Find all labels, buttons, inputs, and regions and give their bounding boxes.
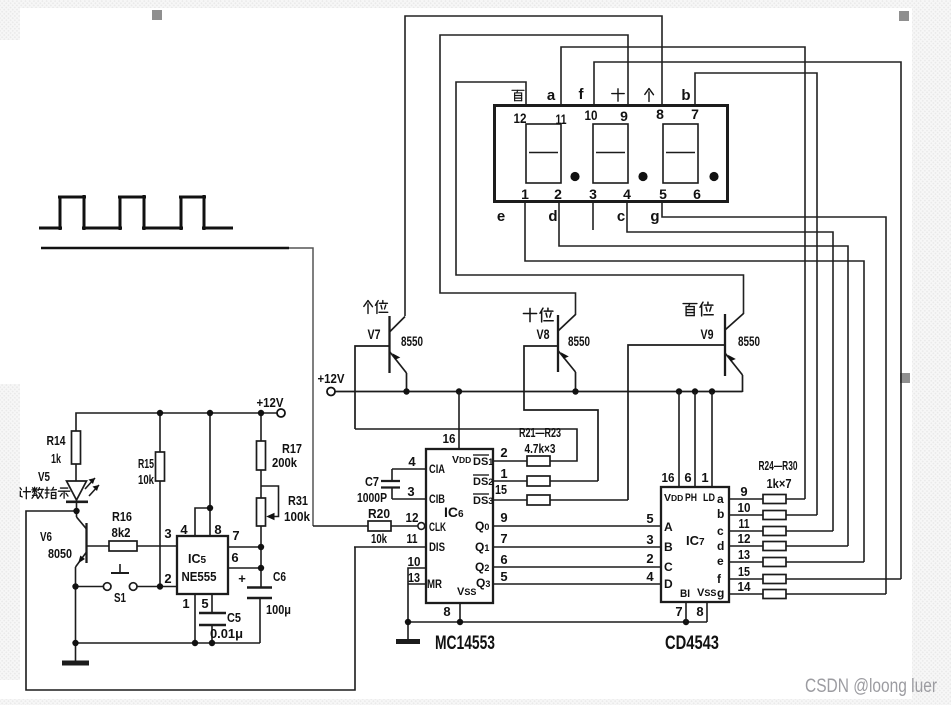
svg-text:Q1: Q1 <box>475 540 489 554</box>
svg-text:IC5: IC5 <box>188 552 207 566</box>
svg-text:+: + <box>238 571 246 586</box>
svg-text:7: 7 <box>691 106 699 122</box>
svg-text:4: 4 <box>180 522 188 537</box>
svg-text:3: 3 <box>407 484 414 499</box>
wire segment d: display pin2 to R27 <box>559 203 848 546</box>
svg-text:R21—R23: R21—R23 <box>519 426 561 440</box>
svg-text:NE555: NE555 <box>182 570 217 584</box>
node dots IC ground rail <box>405 619 689 625</box>
svg-text:4.7k×3: 4.7k×3 <box>525 442 556 456</box>
resistor R15 <box>156 413 165 587</box>
svg-text:C7: C7 <box>365 475 379 489</box>
label 十位 (V8) <box>523 308 536 321</box>
svg-text:c: c <box>717 524 724 538</box>
wire NE555 pin6 <box>228 567 261 569</box>
svg-text:b: b <box>717 507 724 521</box>
svg-text:B: B <box>664 540 673 554</box>
wire clock elbow to R20 <box>289 248 313 526</box>
svg-text:V6: V6 <box>40 530 52 544</box>
svg-text:10k: 10k <box>371 532 387 546</box>
svg-text:R20: R20 <box>368 507 390 521</box>
svg-text:Q0: Q0 <box>475 519 489 533</box>
svg-text:10k: 10k <box>138 473 154 487</box>
svg-text:8: 8 <box>696 604 703 619</box>
svg-text:9: 9 <box>500 510 507 525</box>
wire segment g: display pin5 to R30 <box>662 203 886 594</box>
LED V5 <box>66 478 99 502</box>
display module box <box>495 106 728 202</box>
svg-text:CIB: CIB <box>429 492 445 506</box>
label 个 (display units) <box>645 89 654 102</box>
wire IC6 pin11 DIS <box>354 546 426 548</box>
wire NE555 pin1 to ground <box>194 594 196 643</box>
CD4543 top pin labels <box>662 470 709 619</box>
wire long clock line <box>41 247 289 250</box>
svg-text:12: 12 <box>514 110 527 126</box>
wire CD4543 BI pin7 to ground <box>685 602 687 622</box>
svg-text:+12V: +12V <box>318 371 345 386</box>
capacitor C6 <box>247 588 272 644</box>
svg-text:1k: 1k <box>51 452 61 466</box>
wire segment b: display pin7 to R25 <box>695 73 817 515</box>
svg-text:6: 6 <box>500 552 507 567</box>
wire V7 base <box>355 346 390 429</box>
svg-text:8550: 8550 <box>401 334 423 349</box>
svg-text:7: 7 <box>232 528 239 543</box>
switch S1 <box>76 564 178 590</box>
op IC6 MC14553 box <box>426 449 493 603</box>
svg-text:8: 8 <box>443 604 450 619</box>
svg-text:4: 4 <box>623 186 631 202</box>
decimal point dot 1 <box>570 172 579 181</box>
capacitor C7 <box>381 469 400 499</box>
label 百 (display hundreds) <box>512 90 524 100</box>
capacitor C5 <box>199 594 226 643</box>
node dots on +12V rail <box>403 388 715 394</box>
selection handle top-left <box>152 10 162 20</box>
svg-text:CD4543: CD4543 <box>665 633 719 654</box>
wire IC6 pin10 and pin13 MR stubs <box>408 568 426 622</box>
svg-text:3: 3 <box>589 186 597 202</box>
svg-text:6: 6 <box>693 186 701 202</box>
svg-text:e: e <box>717 554 724 568</box>
op IC7 CD4543 box <box>661 487 729 602</box>
svg-text:D: D <box>664 577 673 591</box>
IC6 CLK inverting bubble <box>418 523 425 530</box>
label 个位 (V7) <box>364 301 373 314</box>
svg-text:LD: LD <box>703 492 715 504</box>
svg-text:12: 12 <box>406 510 419 525</box>
svg-text:15: 15 <box>495 482 507 497</box>
svg-text:9: 9 <box>740 484 747 499</box>
wire segment a: display pin11 to R24 <box>561 47 805 499</box>
svg-text:DS1: DS1 <box>473 456 493 468</box>
decimal point dot 3 <box>709 172 718 181</box>
display pin numbers top row <box>514 106 700 127</box>
wire R21 to V7 base <box>355 429 577 461</box>
svg-text:11: 11 <box>407 531 418 546</box>
svg-text:VDD: VDD <box>452 454 471 466</box>
CD4543 internal labels <box>664 492 724 600</box>
display pin numbers bottom row <box>521 186 701 202</box>
svg-text:2: 2 <box>164 571 171 586</box>
svg-text:8550: 8550 <box>738 334 760 349</box>
CD4543 right pin labels <box>738 484 752 594</box>
svg-text:C: C <box>664 560 673 574</box>
resistor R22 <box>527 476 550 486</box>
svg-text:16: 16 <box>662 470 675 485</box>
wire IC6 DS2 pin1 to R22 <box>493 480 527 482</box>
wire Q3 to CD4543 D <box>493 583 661 585</box>
+12V terminal circle (NE555) <box>277 409 285 417</box>
svg-text:Q2: Q2 <box>475 560 489 574</box>
svg-text:13: 13 <box>408 570 420 585</box>
svg-text:15: 15 <box>738 564 750 579</box>
potentiometer R31 <box>257 486 279 587</box>
svg-text:DS3: DS3 <box>473 495 493 507</box>
wire R22 to V8 base riser <box>550 480 598 482</box>
digit cell 3 <box>663 124 698 183</box>
wire IC6 pin3 CIB <box>392 498 426 500</box>
svg-text:1k×7: 1k×7 <box>767 477 792 491</box>
svg-text:V7: V7 <box>368 327 381 342</box>
clock waveform <box>39 195 233 230</box>
svg-text:R31: R31 <box>288 494 308 508</box>
svg-text:a: a <box>717 492 724 506</box>
IC6 internal labels <box>427 454 493 598</box>
svg-text:5: 5 <box>646 511 653 526</box>
svg-text:PH: PH <box>685 492 697 504</box>
svg-text:VSS: VSS <box>697 587 716 599</box>
wire NE555 pin4/pin8 to +12V <box>195 508 210 536</box>
digit cell 2 <box>593 124 628 183</box>
wire f out + resistor R29 <box>729 578 763 580</box>
svg-text:d: d <box>717 539 724 553</box>
resistor R23 <box>527 495 550 505</box>
svg-text:200k: 200k <box>272 456 297 470</box>
svg-text:8550: 8550 <box>568 334 590 349</box>
wire NE555 pin7 <box>228 546 261 548</box>
svg-text:8: 8 <box>214 522 221 537</box>
resistor R14 <box>72 431 81 464</box>
svg-text:MR: MR <box>427 577 442 591</box>
transistor V9 8550 <box>725 314 744 393</box>
wire display pin3 stub <box>592 203 594 230</box>
wire e out + resistor R28 <box>729 561 763 563</box>
svg-text:12: 12 <box>738 531 751 546</box>
display segment labels bottom (e d c g) <box>497 208 660 225</box>
wire V9 base to R23 <box>628 345 725 500</box>
svg-text:A: A <box>664 520 673 534</box>
svg-text:BI: BI <box>680 588 690 600</box>
decimal point dot 2 <box>638 172 647 181</box>
svg-text:c: c <box>617 208 625 225</box>
label 计数指示 (V5) <box>20 487 30 498</box>
wire ground rail (NE555) <box>76 642 261 644</box>
digit cell 1 <box>526 124 561 183</box>
svg-text:C6: C6 <box>273 570 286 584</box>
svg-text:Q3: Q3 <box>476 576 490 590</box>
svg-text:9: 9 <box>620 108 628 124</box>
wire CD4543 pin1 riser <box>711 392 713 488</box>
svg-text:R14: R14 <box>47 434 66 448</box>
svg-text:2: 2 <box>554 186 562 202</box>
wire R14 to LED <box>75 464 77 481</box>
+12V terminal circle <box>327 388 335 396</box>
svg-text:100μ: 100μ <box>266 603 291 617</box>
svg-text:16: 16 <box>443 431 456 446</box>
wire R16 to NE555 pin3 <box>137 545 177 547</box>
wire Q1 to CD4543 B <box>493 546 661 548</box>
svg-text:V8: V8 <box>537 327 550 342</box>
svg-text:1000P: 1000P <box>357 491 387 505</box>
svg-text:VSS: VSS <box>457 586 476 598</box>
CD4543 left pin labels <box>646 511 654 584</box>
resistor R16 <box>109 541 137 551</box>
svg-text:8050: 8050 <box>48 547 72 561</box>
transistor V7 8550 <box>390 316 407 392</box>
wire V9 collector to display pin12 (hundreds digit) <box>456 82 744 314</box>
svg-text:5: 5 <box>659 186 667 202</box>
svg-text:DIS: DIS <box>429 540 445 554</box>
svg-text:b: b <box>681 87 690 104</box>
label 百位 (V9) <box>683 304 697 316</box>
wire V8 base to R22 <box>524 346 598 481</box>
svg-text:5: 5 <box>500 569 507 584</box>
svg-text:8: 8 <box>656 106 664 122</box>
svg-text:VDD: VDD <box>664 492 683 504</box>
svg-text:R17: R17 <box>282 442 302 456</box>
svg-text:2: 2 <box>500 445 507 460</box>
svg-text:7: 7 <box>500 531 507 546</box>
svg-text:10: 10 <box>585 107 598 123</box>
wire segment e: display pin1 to R28 <box>525 203 864 562</box>
svg-text:e: e <box>497 208 505 225</box>
svg-text:CLK: CLK <box>429 520 446 534</box>
svg-text:10: 10 <box>408 554 421 569</box>
wire node to DIS big loop <box>26 511 355 690</box>
svg-text:10: 10 <box>738 500 751 515</box>
ground symbol (ICs) <box>396 622 420 642</box>
wire IC6 pin4 CIA <box>392 468 426 470</box>
op IC5 NE555 box <box>177 536 228 594</box>
wire IC6 DS1 pin2 to R21 <box>493 460 527 462</box>
IC6 DS overlines <box>473 455 489 494</box>
wire d out + resistor R27 <box>729 545 763 547</box>
wire segment f: display pin10 to R29 <box>594 62 901 579</box>
svg-text:6: 6 <box>231 550 238 565</box>
display segment labels top (a f b) <box>547 86 691 104</box>
svg-text:R24—R30: R24—R30 <box>759 459 798 473</box>
wire V7 collector to display pin8 (units digit) <box>405 16 662 316</box>
IC6 pin number labels <box>406 431 508 619</box>
svg-text:3: 3 <box>164 526 171 541</box>
svg-text:3: 3 <box>646 532 653 547</box>
svg-text:R15: R15 <box>138 457 154 471</box>
svg-text:CSDN @loong luer: CSDN @loong luer <box>805 676 938 697</box>
svg-text:S1: S1 <box>114 591 126 605</box>
wire b out + resistor R25 <box>729 514 763 516</box>
svg-text:1: 1 <box>701 470 708 485</box>
wire Q2 to CD4543 C <box>493 566 661 568</box>
svg-text:d: d <box>548 208 557 225</box>
wire IC6 VDD pin16 riser <box>458 392 460 450</box>
svg-text:0.01μ: 0.01μ <box>210 627 243 641</box>
wire R23 to V9 base riser <box>550 499 628 501</box>
wire CD4543 VSS pin8 to ground <box>706 602 708 622</box>
svg-text:6: 6 <box>684 470 691 485</box>
svg-text:1: 1 <box>521 186 529 202</box>
svg-text:100k: 100k <box>284 510 310 524</box>
wire V6 base to R16 <box>88 545 110 547</box>
svg-text:C5: C5 <box>227 611 241 625</box>
svg-text:V9: V9 <box>701 327 714 342</box>
svg-text:14: 14 <box>738 579 752 594</box>
svg-text:1: 1 <box>500 466 507 481</box>
wire c out + resistor R26 <box>729 530 763 532</box>
wire CD4543 pin16 riser <box>678 392 680 488</box>
selection handle right-middle <box>900 373 910 383</box>
selection handle top-right <box>899 11 909 21</box>
wire segment c: display pin4 to R26 <box>627 203 833 531</box>
wire LED cathode to V6 collector node <box>76 502 78 517</box>
wire a out + resistor R24 <box>729 498 763 500</box>
wire Q0 to CD4543 A <box>493 525 661 527</box>
wire +12V rail (transistors) <box>335 391 743 393</box>
svg-text:8k2: 8k2 <box>112 526 131 540</box>
ground symbol (NE555) <box>62 643 89 663</box>
svg-text:11: 11 <box>556 111 567 127</box>
svg-text:g: g <box>650 208 659 225</box>
svg-text:4: 4 <box>646 569 654 584</box>
svg-text:R16: R16 <box>112 510 132 524</box>
svg-text:MC14553: MC14553 <box>435 633 495 654</box>
svg-text:7: 7 <box>675 604 682 619</box>
wire +12V rail (NE555) <box>76 413 277 431</box>
wire IC6 DS3 pin15 to R23 <box>493 499 527 501</box>
svg-text:CIA: CIA <box>429 462 445 476</box>
resistor R20 <box>313 521 418 531</box>
node dots NE555 area <box>72 410 264 646</box>
transistor V8 8550 <box>558 315 576 393</box>
resistor R17 <box>257 413 266 498</box>
svg-text:4: 4 <box>408 454 416 469</box>
wire V8 collector to display pin9 (tens digit) <box>440 35 628 315</box>
wire IC6 VSS pin8 to ground rail <box>459 603 461 622</box>
transistor V6 8050 <box>76 517 87 643</box>
svg-text:a: a <box>547 87 556 104</box>
svg-text:g: g <box>717 586 724 600</box>
svg-text:2: 2 <box>646 551 653 566</box>
svg-text:V5: V5 <box>38 470 50 484</box>
wire ground rail (ICs) <box>408 621 707 623</box>
resistor R21 <box>527 456 550 466</box>
svg-text:+12V: +12V <box>257 395 284 410</box>
svg-text:11: 11 <box>739 516 750 531</box>
label 十 (display tens) <box>612 89 624 101</box>
svg-text:5: 5 <box>201 596 208 611</box>
wire g out + resistor R30 <box>729 593 763 595</box>
IC5 pin labels <box>164 522 239 611</box>
svg-text:1: 1 <box>182 596 189 611</box>
wire CD4543 pin6 riser <box>694 392 696 488</box>
svg-text:13: 13 <box>738 547 750 562</box>
svg-text:DS2: DS2 <box>473 476 493 488</box>
